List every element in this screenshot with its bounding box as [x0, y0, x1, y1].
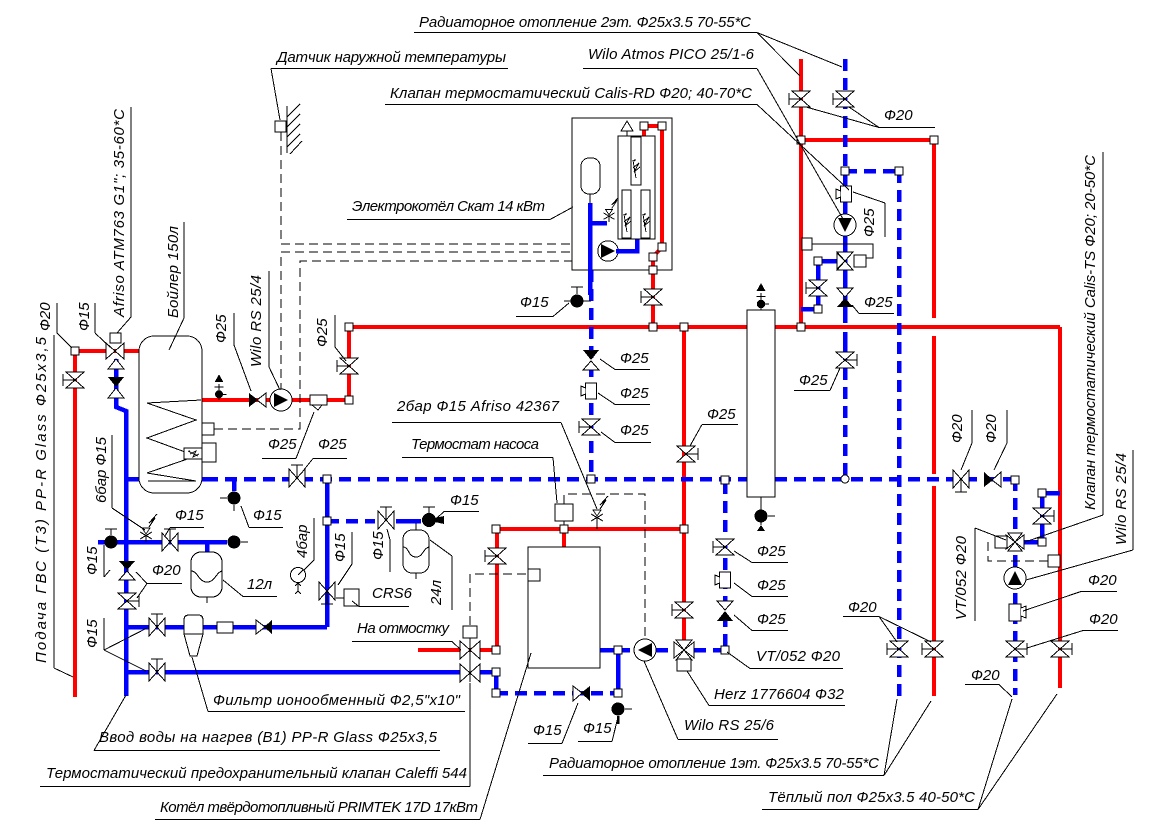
wire: internal blue to safety: [590, 221, 607, 226]
label: Ф20 valve vt: [1027, 611, 1118, 648]
svg-text:Ф25: Ф25: [799, 372, 828, 389]
ball valve on drain y=542: [105, 529, 118, 549]
label: Ф25 x725 valve: [734, 543, 788, 563]
node discharge: [492, 646, 500, 654]
label: 4бар: [294, 518, 314, 570]
node boiler stub: [560, 525, 568, 533]
hydraulic separator: [747, 310, 775, 497]
gauge three-way valve: [319, 582, 335, 604]
drain ball valve x=618: [612, 703, 633, 725]
node vt hot stub top: [1038, 489, 1046, 497]
safety valve 6бар: [140, 514, 157, 542]
label: Ф20 riser valves 2fl: [806, 107, 935, 128]
expansion vessel 24л: [403, 523, 429, 579]
label: Ф15 drain valve branch: [437, 492, 479, 518]
tank heating element flange: [202, 443, 216, 462]
outdoor temperature sensor: [275, 121, 286, 132]
node main supply x=652: [649, 323, 657, 331]
svg-text:6бар Ф15: 6бар Ф15: [93, 436, 110, 503]
drain ball valve Ф15 y=521: [422, 507, 444, 527]
node calis stub: [814, 257, 822, 265]
svg-text:12л: 12л: [247, 576, 273, 593]
ion-exchange filter: [184, 615, 203, 656]
svg-text:Датчик наружной температуры: Датчик наружной температуры: [275, 49, 506, 66]
svg-text:Клапан термостатический Calis-: Клапан термостатический Calis-TS Ф20; 20…: [1082, 155, 1099, 510]
label: Ф20 risers 1fl: [843, 599, 931, 642]
svg-text:Ф25: Ф25: [318, 436, 347, 453]
svg-text:Ф15: Ф15: [76, 302, 93, 331]
valve on electric boiler return: [579, 419, 600, 435]
wire: 1st floor supply riser x=934 upper: [932, 140, 936, 318]
wire: boiler outlet y=400: [202, 398, 349, 402]
label: Ввод воды на нагрев: [94, 695, 440, 751]
wire: electric boiler red outlet: [653, 126, 662, 327]
separator air vent: [757, 283, 770, 310]
label: Ф25 x591 separator: [598, 385, 650, 405]
svg-text:Ф20: Ф20: [1089, 611, 1118, 628]
svg-text:24л: 24л: [428, 579, 445, 606]
valve on x=1015 bottom: [1006, 641, 1027, 657]
valve on x=934 bottom: [922, 641, 943, 657]
node main return x=845: [841, 475, 849, 483]
wire: mixing unit column x=845: [843, 171, 848, 323]
svg-text:Wilo RS 25/4: Wilo RS 25/4: [248, 275, 265, 367]
heating element block: [618, 136, 655, 239]
wire: discharge line y=650: [418, 648, 497, 652]
check valve at boiler outlet: [249, 393, 266, 407]
wire: sensor cable to electric boiler: [281, 132, 572, 244]
label: Радиаторное отопление 2эт: [414, 14, 842, 76]
valve on x=1060 bottom: [1051, 641, 1072, 657]
svg-text:Ф20: Ф20: [884, 107, 913, 124]
svg-text:Ф25: Ф25: [620, 350, 649, 367]
valve Ф20 on main return right: [953, 470, 969, 492]
wire: calis feed stub: [801, 261, 837, 309]
wire: caleffi capillary: [470, 574, 526, 626]
label: Ф25 x591 check: [600, 350, 650, 370]
label: Ф15 left: [76, 302, 110, 347]
svg-text:Ф25: Ф25: [620, 422, 649, 439]
svg-text:Ф25: Ф25: [213, 314, 230, 343]
label: 6бар Ф15: [93, 435, 145, 530]
wire: 2nd floor return riser top: [843, 59, 848, 171]
wire: drain stub x=618: [616, 650, 621, 693]
boiler thermostat sensor pocket: [528, 569, 540, 581]
node boiler outlet corner: [345, 323, 353, 331]
wire: blue riser x=327: [325, 479, 330, 627]
svg-text:Тёплый пол Ф25х3.5 40-50*С: Тёплый пол Ф25х3.5 40-50*С: [768, 789, 975, 806]
valve on return riser x=845: [833, 91, 854, 107]
node electric boiler top right: [658, 122, 666, 130]
valve Ф20 x=126: [118, 593, 139, 609]
svg-text:Ф15: Ф15: [253, 507, 282, 524]
makeup ball valve Ф15 at electric boiler return: [564, 287, 591, 308]
DHW tank sensor pocket: [202, 423, 214, 435]
wire: cold water from ATM763 valve down: [116, 359, 126, 696]
node main return x=725: [721, 476, 729, 484]
valve on electric boiler red outlet: [641, 289, 662, 305]
valve Ф25 left end of main return: [289, 465, 305, 487]
pump Wilo RS 25/6: [634, 639, 656, 661]
label: VT/052 Ф20 unit: [953, 528, 1006, 621]
wire: pump outlet blue: [616, 239, 637, 251]
label: Ф15 branch valve: [370, 529, 390, 572]
wire: vessel stem: [589, 194, 591, 203]
label: Датчик наружной температуры: [271, 49, 508, 120]
label: На отмостку: [352, 620, 461, 650]
svg-text:VT/052 Ф20: VT/052 Ф20: [953, 535, 970, 620]
wire: branch y=140 to riser x=934: [801, 138, 934, 142]
valve on drain y=542: [162, 529, 178, 551]
wire: 1st floor return dashed y=693: [496, 691, 618, 696]
label: Ф25 x684 valve: [690, 406, 738, 446]
valve on riser x=684 upper: [677, 446, 698, 462]
valve Ф20 on DHW riser: [63, 372, 84, 388]
wire: electric boiler return x=591: [589, 270, 594, 479]
air vent on tank outlet: [215, 374, 227, 400]
node main supply x=801: [797, 323, 805, 331]
label: Wilo Atmos PICO 25/1-6: [583, 46, 843, 219]
label: Ф15 gauge valve: [332, 532, 352, 585]
node electric boiler jog lower: [649, 253, 657, 261]
ball valve end of drain: [228, 536, 249, 549]
wire: red horizontal y=351 to boiler tank: [75, 349, 139, 353]
wire: vt052 capillary: [988, 542, 1049, 561]
wire: electric boiler top red header: [644, 124, 662, 128]
svg-text:CRS6: CRS6: [372, 585, 413, 602]
check valve on filter line: [256, 620, 272, 634]
svg-text:Ф15: Ф15: [332, 533, 349, 562]
wire: fill line x=497: [495, 529, 499, 650]
label: Ф25 air separator x845: [853, 192, 885, 237]
wire: branch y=521 dashed: [327, 519, 375, 524]
wire: x=845 below crossing: [843, 332, 848, 360]
label: Ф25 boiler outlet valve: [314, 315, 346, 361]
label: Ф20 check pair: [136, 562, 182, 598]
svg-text:Ввод воды на нагрев (В1) PP-R: Ввод воды на нагрев (В1) PP-R Glass Ф25х…: [99, 729, 438, 746]
wire: coil return stub: [126, 477, 139, 482]
wire: main return y=479 left solid: [201, 477, 210, 482]
union with thermostat pocket: [310, 395, 327, 410]
wire: main return y=479 dashed left: [206, 477, 747, 482]
dirt separator on x=725: [715, 572, 731, 588]
label: Wilo RS 25/4 vt pump: [1026, 450, 1133, 580]
svg-text:Термостат насоса: Термостат насоса: [411, 436, 539, 453]
valve Ф25 on vertical x=349: [337, 358, 358, 374]
node return corner x=496: [492, 689, 500, 697]
check valve on cold water x=116: [108, 377, 124, 398]
label: Wilo RS 25/6: [644, 661, 778, 740]
svg-text:Ф25: Ф25: [620, 385, 649, 402]
node electric boiler top left: [640, 122, 648, 130]
node boiler return x=618: [614, 646, 622, 654]
valve on filter line: [149, 614, 165, 636]
node electric boiler jog upper: [658, 243, 666, 251]
label: Ф20 left: [37, 302, 72, 348]
check valve Ф20 x=126: [119, 561, 135, 580]
svg-text:Ф20: Ф20: [971, 667, 1000, 684]
svg-text:4бар: 4бар: [294, 525, 311, 558]
pump Wilo Atmos PICO: [834, 214, 856, 236]
air separator on x=845: [836, 186, 852, 202]
label: VT/052 Ф20 herz line: [727, 648, 843, 669]
label: Ф25 x591 valve: [601, 422, 651, 443]
three-way valve Calis-RD: [837, 252, 866, 270]
label: Радиаторное отопление 1эт: [543, 699, 931, 776]
label: Afriso ATM763 G1 35-60C: [111, 107, 131, 333]
wire: main return y=479 dashed right: [775, 477, 1016, 482]
svg-text:VT/052 Ф20: VT/052 Ф20: [756, 648, 841, 665]
label: Ф25 x845 check: [852, 294, 894, 314]
label: Фильтр ионообменный: [192, 657, 465, 712]
node electric boiler exit: [649, 266, 657, 274]
label: Электрокотёл Скат 14 кВт: [347, 198, 573, 220]
label: Ф15 gauge line: [165, 507, 204, 536]
node main supply x=684: [680, 323, 688, 331]
wire: calis sensor capillary: [810, 244, 873, 258]
svg-text:Ф25: Ф25: [314, 318, 331, 347]
check valve on electric boiler return: [583, 350, 599, 370]
internal pump: [598, 241, 618, 261]
node drain tee x=618: [614, 689, 622, 697]
label: Ф25 x725 separator: [734, 577, 788, 597]
safety valve 2бар Afriso: [591, 496, 608, 529]
node 2fl corner x=801: [797, 136, 805, 144]
svg-text:Ф20: Ф20: [848, 599, 877, 616]
calis sensor pocket on riser: [802, 238, 812, 250]
node at DHW corner: [71, 347, 79, 355]
svg-text:Бойлер 150л: Бойлер 150л: [165, 225, 182, 318]
node blue corner x=845: [841, 167, 849, 175]
node main return corner x=1015: [1011, 476, 1019, 484]
label: Ф25 x725 check: [734, 611, 788, 631]
check valve on x=845: [837, 288, 853, 307]
node feed stub: [492, 668, 500, 676]
wire: return riser x=899: [897, 171, 902, 696]
label: Тёплый пол: [762, 694, 1057, 810]
label: Ф15 drain ball: [84, 545, 110, 577]
wire: 1st floor supply riser x=934 middle: [932, 336, 936, 474]
wire: softener filter line y=627: [126, 625, 327, 630]
vt052 sensor pocket: [1048, 555, 1060, 567]
wire: underfloor hot stub: [1024, 493, 1060, 542]
wire: boiler top stub x=564: [562, 529, 566, 547]
wire: boiler room return x=725: [723, 482, 728, 650]
wire: pump control cable: [281, 252, 572, 392]
svg-text:Ф20: Ф20: [949, 414, 966, 443]
svg-text:Термостатический предохранител: Термостатический предохранительный клапа…: [46, 765, 467, 782]
label: Ф20 underfloor bottom: [965, 667, 1012, 697]
wire: x=845 dashed to return: [843, 368, 848, 479]
label: Ф25 check valve dhw: [213, 313, 251, 391]
svg-text:Ф15: Ф15: [520, 294, 549, 311]
wire: DHW supply red riser x=75: [73, 351, 77, 697]
valve on feed line y=672: [149, 659, 165, 681]
svg-text:Ф20: Ф20: [983, 414, 1000, 443]
wire: solid fuel boiler supply y=529: [496, 527, 684, 531]
wire: internal blue column: [588, 203, 593, 295]
svg-text:Клапан термостатический Calis-: Клапан термостатический Calis-RD Ф20; 40…: [390, 85, 752, 102]
svg-text:Ф15: Ф15: [175, 507, 204, 524]
pressure gauge 4бар: [291, 568, 306, 595]
label: Термостат насоса: [402, 436, 557, 503]
check valve on x=725: [717, 601, 733, 621]
label: Бойлер 150л: [165, 222, 184, 350]
svg-text:Ф25: Ф25: [757, 543, 786, 560]
node main return x=327: [323, 475, 331, 483]
svg-text:Wilo RS 25/4: Wilo RS 25/4: [1113, 453, 1130, 545]
thermostatic safety valve Caleffi 544: [460, 626, 480, 682]
node vt hot stub bottom: [1038, 538, 1046, 546]
svg-text:Ф15: Ф15: [450, 492, 479, 509]
label: Ф15 two feed valves: [84, 618, 147, 671]
svg-text:Электрокотёл Скат 14 кВт: Электрокотёл Скат 14 кВт: [352, 198, 545, 215]
svg-text:Afriso ATM763 G1"; 35-60*C: Afriso ATM763 G1"; 35-60*C: [111, 109, 128, 318]
wire: electric boiler red drop: [642, 126, 646, 140]
node riser top x=934: [930, 136, 938, 144]
node main return x=591: [587, 475, 595, 483]
svg-text:Ф25: Ф25: [268, 436, 297, 453]
label: Ф20 air sep vt: [1023, 572, 1117, 611]
svg-text:Ф20: Ф20: [37, 302, 54, 331]
node blue corner x=899: [895, 167, 903, 175]
svg-text:Радиаторное отопление 1эт. Ф25: Радиаторное отопление 1эт. Ф25х3.5 70-55…: [549, 755, 879, 772]
node calis feed tee: [814, 305, 822, 313]
svg-text:2бар Ф15 Afriso 42367: 2бар Ф15 Afriso 42367: [396, 398, 560, 415]
label: Ф25 x845 valve: [794, 368, 840, 391]
label: Клапан термостатический Calis-RD: [385, 85, 849, 190]
expansion vessel 12л: [191, 542, 222, 603]
wire: 1st floor supply riser x=934 lower: [932, 486, 936, 696]
air separator on x=1015: [1009, 604, 1026, 621]
svg-text:Подача ГВС (Т3) PP-R Glass Ф25: Подача ГВС (Т3) PP-R Glass Ф25х3,5: [33, 336, 50, 663]
wire: boiler return y=650 dashed: [618, 648, 725, 653]
label: 2бар Ф15 Afriso 42367: [392, 398, 597, 509]
svg-text:Радиаторное отопление 2эт. Ф25: Радиаторное отопление 2эт. Ф25х3.5 70-55…: [419, 14, 751, 31]
label: Котёл твёрдотопливный PRIMTEK: [155, 653, 531, 820]
check valve y=693: [573, 686, 590, 701]
wire: drain branch y=542: [98, 540, 227, 545]
node fill line left: [492, 525, 500, 533]
thermostatic valve Afriso ATM763: [106, 333, 124, 369]
pump thermostat box: [555, 504, 573, 521]
svg-text:Ф15: Ф15: [84, 619, 101, 648]
svg-text:Ф15: Ф15: [84, 546, 101, 575]
tank electric element: [184, 448, 202, 459]
svg-text:На отмостку: На отмостку: [357, 620, 451, 637]
label: Wilo RS 25/4 dhw pump: [248, 271, 280, 390]
wire: feed line y=672: [126, 670, 461, 675]
label: Ф25 return valve: [303, 436, 347, 471]
check valve Ф20 on main return: [984, 472, 1001, 487]
valve on fill line x=497: [485, 548, 506, 564]
wire: feed to caleffi right stub: [480, 672, 496, 693]
label: 24л: [428, 540, 452, 610]
label: Ф15 ball under return: [241, 506, 283, 528]
node herz right x=725: [721, 646, 729, 654]
svg-text:Ф25: Ф25: [707, 406, 736, 423]
svg-text:Ф20: Ф20: [1088, 572, 1117, 589]
valve on x=899 bottom: [887, 641, 908, 657]
label: Ф20 return valve right: [949, 410, 972, 470]
label: Ф20 check valve right: [983, 410, 1007, 470]
valve on riser x=684 lower: [672, 602, 693, 618]
node branch x=327: [323, 517, 331, 525]
outside wall with hatching: [287, 104, 302, 154]
boiler tank Бойлер 150л: [139, 336, 202, 493]
label: Клапан термостатический Calis-TS: [1025, 152, 1103, 542]
label: Ф15 drain x=618: [578, 717, 618, 742]
label: 12л: [223, 576, 277, 597]
svg-text:Ф25: Ф25: [864, 294, 893, 311]
three-way valve VT/052: [995, 533, 1024, 551]
svg-text:Ф25: Ф25: [861, 208, 878, 237]
expansion vessel inside: [581, 158, 600, 194]
label: Ф25 pocket: [262, 412, 314, 459]
separator drain: [755, 497, 776, 531]
node boiler supply right: [680, 525, 688, 533]
wire: 2nd floor return jog y=171: [845, 169, 899, 174]
electric boiler Скат enclosure: [572, 118, 672, 270]
valve Ф25 on x=725: [713, 539, 734, 555]
label: Подача ГВС: [33, 335, 73, 677]
wire: underfloor return riser x=1015: [1013, 479, 1018, 695]
CRS6 box: [336, 589, 359, 606]
wire: red vertical x=349: [347, 327, 351, 400]
union on filter line: [217, 622, 233, 633]
svg-text:Wilo RS 25/6: Wilo RS 25/6: [684, 717, 775, 734]
svg-text:Фильтр ионообменный Ф2,5"х10": Фильтр ионообменный Ф2,5"х10": [213, 692, 461, 709]
wire: pump thermostat cable: [564, 494, 645, 637]
label: Термостатический предохранительный клапан: [40, 683, 470, 787]
wire: 2nd floor supply riser x=801: [799, 59, 803, 327]
svg-text:Wilo Atmos PICO 25/1-6: Wilo Atmos PICO 25/1-6: [588, 46, 755, 63]
three-way valve Herz 1776604: [674, 640, 694, 671]
dirt separator on electric boiler return: [581, 383, 597, 399]
wire: main supply line y=327 right part: [775, 325, 1060, 329]
wire: branch y=521 solid: [396, 519, 421, 524]
pump Wilo RS 25/4 DHW: [270, 389, 292, 411]
node boiler outlet bottom: [345, 396, 353, 404]
wire: boiler return y=650: [600, 648, 620, 653]
svg-text:Ф15: Ф15: [370, 531, 387, 560]
air vent triangle on element: [621, 121, 633, 136]
svg-text:Ф20: Ф20: [152, 562, 181, 579]
valve on branch y=521: [378, 507, 394, 529]
wire: thermostat stub: [563, 521, 565, 529]
wire: underfloor supply riser x=1060: [1058, 327, 1062, 688]
wire: riser x=684: [682, 327, 686, 642]
label: Herz 1776604 Ф32: [687, 671, 845, 706]
svg-text:Ф15: Ф15: [583, 720, 612, 737]
svg-text:Herz 1776604 Ф32: Herz 1776604 Ф32: [714, 686, 845, 703]
svg-text:Ф25: Ф25: [757, 611, 786, 628]
solid fuel boiler PRIMTEK: [528, 547, 600, 668]
svg-text:Ф15: Ф15: [533, 722, 562, 739]
valve on underfloor hot stub: [1033, 508, 1054, 524]
pump VT/052: [1004, 567, 1026, 589]
label: Ф15 check y=693: [528, 703, 578, 744]
label: CRS6: [352, 585, 413, 607]
svg-text:Котёл твёрдотопливный PRIMTEK: Котёл твёрдотопливный PRIMTEK 17D 17кВт: [160, 799, 478, 816]
ball valve under main return Ф15: [220, 479, 241, 511]
wire: tank sensor cable: [214, 261, 572, 429]
valve on calis feed stub: [806, 280, 827, 296]
label: Ф15 makeup: [516, 294, 569, 317]
valve on supply riser x=801: [789, 91, 810, 107]
internal safety valve: [604, 197, 619, 222]
svg-text:Ф25: Ф25: [757, 577, 786, 594]
